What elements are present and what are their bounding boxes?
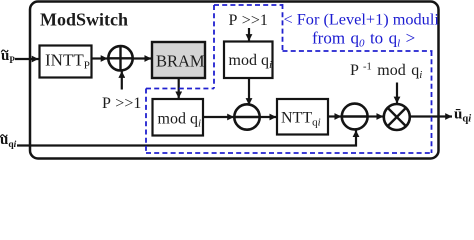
svg-text:BRAM: BRAM — [156, 52, 205, 71]
svg-text:P >>1: P >>1 — [229, 12, 268, 29]
wire NTT to subtractor 2 — [328, 115, 341, 117]
label P^-1 mod q_i — [350, 62, 422, 82]
block INTT_P — [40, 46, 92, 78]
block NTT_qi — [277, 99, 328, 135]
subtractor circle 1 (minus node) — [234, 104, 259, 129]
blue dashed region: left edge of P>>1 sub-box — [213, 5, 215, 89]
svg-text:ūqi: ūqi — [454, 107, 471, 125]
label P >> 1 (left, feeds adder) — [102, 95, 141, 112]
blue dashed region: bottom edge — [146, 152, 432, 154]
wire adder to BRAM — [133, 57, 152, 59]
adder circle (plus node) — [108, 46, 132, 70]
label P >> 1 (top, feeds mod q_i) — [229, 12, 268, 29]
wire utilde_qi feedback to subtractor 2 — [17, 130, 356, 145]
svg-text:from q0 to ql >: from q0 to ql > — [312, 29, 415, 50]
blue dashed region: right edge — [431, 51, 433, 153]
block mod q_i (top) — [224, 42, 273, 79]
wire INTT_P to adder — [92, 57, 108, 59]
node utilde_qi input label — [0, 132, 17, 150]
wire subtractor 1 to NTT — [260, 116, 277, 118]
blue dashed note box: bottom edge — [283, 50, 433, 52]
blue dashed region: left edge — [145, 89, 147, 154]
node utilde_P input label — [1, 48, 15, 65]
blue note text line 2 — [312, 29, 415, 50]
wire multiplier to output ubar_qi — [410, 115, 452, 117]
wire top P>>1 down to mod q_i — [248, 28, 250, 41]
blue note text line 1 — [284, 10, 440, 29]
ModSwitch title label — [40, 9, 128, 29]
svg-text:mod qi: mod qi — [158, 111, 202, 130]
svg-text:INTTP: INTTP — [45, 51, 90, 72]
wire P^-1 mod q_i down to multiplier — [396, 83, 398, 104]
wire utilde_P to INTT_P — [15, 58, 39, 60]
block BRAM — [152, 42, 205, 78]
svg-text:ModSwitch: ModSwitch — [40, 9, 128, 29]
node ubar_qi output label — [454, 107, 471, 125]
block mod q_i (bottom) — [153, 99, 204, 136]
subtractor circle 2 (minus node) — [342, 104, 368, 130]
blue dashed note box: left edge — [282, 4, 284, 51]
wire P>>1 up to adder — [121, 71, 123, 90]
outer ModSwitch enclosure box — [30, 2, 439, 159]
svg-text:P -1 mod qi: P -1 mod qi — [350, 62, 422, 82]
multiplier circle (times node) — [384, 104, 410, 130]
wire top mod q_i down to subtractor 1 — [248, 78, 250, 105]
blue dashed region: upper-left horizontal edge — [146, 88, 214, 90]
wire BRAM down to mod q_i — [178, 78, 180, 98]
wire mod q_i to subtractor 1 — [203, 116, 234, 118]
svg-text:mod qi: mod qi — [229, 52, 273, 71]
blue dashed region: top edge of P>>1 sub-box — [214, 4, 283, 6]
svg-text:< For (Level+1) moduli: < For (Level+1) moduli — [284, 10, 440, 29]
wire subtractor 2 to multiplier — [368, 115, 384, 117]
svg-text:P >>1: P >>1 — [102, 95, 141, 112]
